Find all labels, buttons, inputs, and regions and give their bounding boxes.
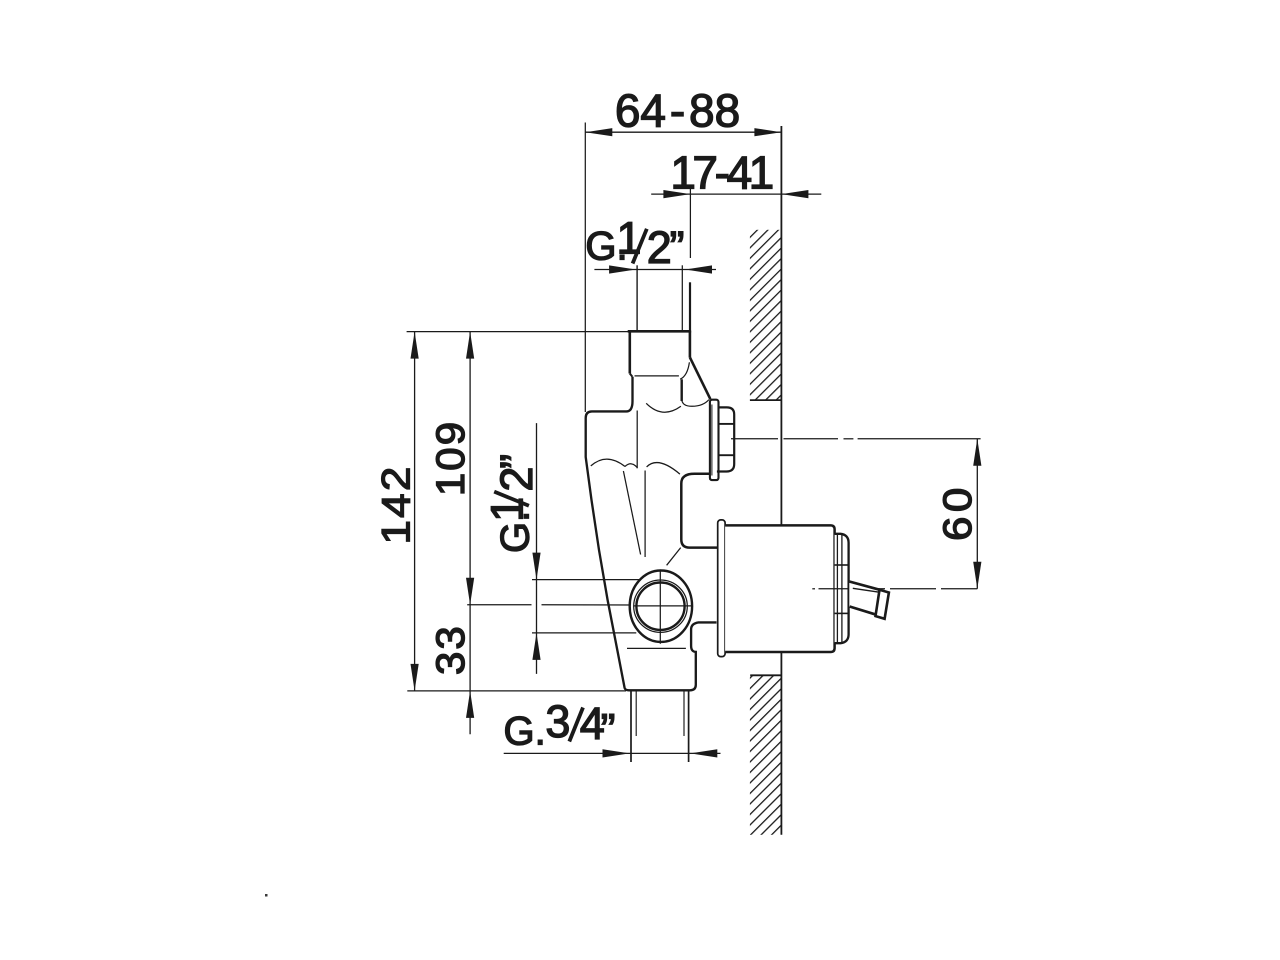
- stray dot artifact: [265, 894, 268, 897]
- wall face line: [780, 126, 782, 835]
- wall hatch upper strip: [750, 230, 782, 400]
- cartridge body: [725, 525, 835, 652]
- svg-text:17 - 41: 17 - 41: [670, 147, 772, 199]
- washer plate on wall port: [710, 400, 719, 480]
- svg-text:1: 1: [482, 497, 533, 522]
- cone transition to wall port: [690, 357, 711, 399]
- upper port dash-dot centerline: [731, 438, 981, 440]
- svg-text:2: 2: [491, 467, 542, 492]
- svg-text:”: ”: [491, 454, 542, 469]
- svg-text:109: 109: [428, 420, 473, 496]
- label G.3/4 bottom port: [504, 696, 616, 756]
- union nut on top port: [628, 331, 691, 379]
- svg-text:142: 142: [373, 465, 418, 545]
- svg-text:1: 1: [617, 213, 642, 264]
- bottom port pipe G3/4: [631, 691, 689, 762]
- bottom extension line (142/33 lower reference): [407, 690, 626, 692]
- svg-text:33: 33: [428, 624, 473, 675]
- svg-text:2: 2: [647, 222, 672, 273]
- svg-text:60: 60: [935, 483, 980, 541]
- internal casting curves: [591, 400, 709, 566]
- dimension 60: [935, 439, 982, 589]
- hex nipple wall port: [717, 407, 734, 471]
- dimension 17-41: [651, 147, 821, 258]
- svg-text:3: 3: [545, 696, 570, 747]
- control lever: [849, 581, 889, 619]
- dimension 64-88: [585, 85, 781, 412]
- collar right edge: [681, 379, 683, 401]
- label G.1/2 side port (rotated): [482, 454, 542, 553]
- side port boss (front view): [630, 569, 692, 643]
- right shoulder pocket: [681, 474, 717, 548]
- side port dimension line: [532, 423, 660, 674]
- top extension line (142/109 upper reference): [407, 331, 630, 333]
- wall hatch lower strip: [750, 675, 782, 835]
- cartridge retaining flange: [718, 520, 725, 657]
- valve body main outline: [586, 377, 717, 691]
- internal shoulder line above bottom port: [627, 647, 686, 649]
- label G.1/2 top port: [585, 213, 716, 274]
- cartridge stem nut: [835, 534, 849, 643]
- side port horizontal centerline / 109-33 reference: [467, 604, 692, 606]
- svg-text:”: ”: [601, 705, 616, 756]
- cartridge dash-dot centerline: [812, 588, 977, 590]
- dimension 109 and 33 shared line: [428, 332, 474, 735]
- top port pipe G1/2: [637, 265, 690, 332]
- dimension 142: [373, 332, 418, 691]
- svg-text:G.: G.: [504, 710, 546, 754]
- notch under washer plate: [710, 471, 717, 479]
- svg-text:64 - 88: 64 - 88: [615, 85, 740, 137]
- bottom port dimension line: [504, 749, 721, 757]
